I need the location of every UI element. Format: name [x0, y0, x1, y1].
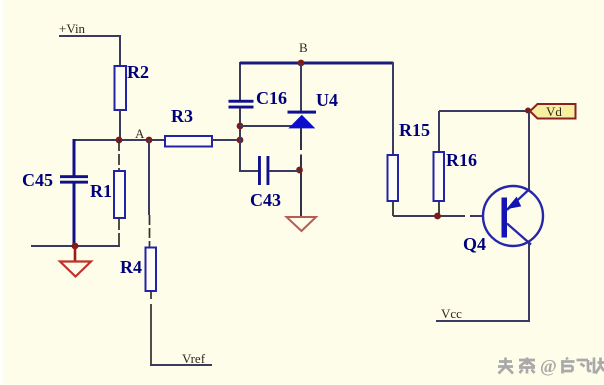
wire Vref [150, 364, 212, 366]
svg-text:R1: R1 [90, 181, 112, 201]
svg-text:Vref: Vref [182, 351, 206, 366]
junction dot C43 right [296, 167, 303, 174]
wire C43 left bend [240, 170, 259, 172]
transistor Q4 [463, 186, 543, 254]
watermark toutiao [498, 358, 604, 374]
capacitor C45 [22, 170, 88, 190]
junction dot C16/U4 [237, 123, 244, 130]
junction dot base [434, 213, 441, 220]
ground symbol middle [287, 217, 317, 231]
wire Vcc [436, 320, 530, 322]
wire R3 right [212, 139, 240, 141]
wire C16 top lead [239, 62, 241, 101]
resistor R15 [388, 155, 399, 201]
svg-text:Q4: Q4 [463, 234, 486, 254]
resistor R16 [434, 152, 445, 201]
node A junction dot left [116, 137, 123, 144]
svg-text:@: @ [540, 356, 557, 376]
wire R1 top lead [118, 140, 120, 171]
wire collector lead [528, 111, 530, 190]
wire R2 bottom lead [119, 110, 121, 140]
wire +Vin horizontal [59, 35, 121, 37]
wire R4 riser [148, 140, 150, 215]
resistor R4 [146, 248, 157, 292]
svg-text:+Vin: +Vin [59, 21, 86, 36]
wire C45 bottom lead [73, 183, 76, 246]
wire node B top [240, 62, 393, 65]
svg-text:Vd: Vd [546, 104, 562, 119]
svg-text:B: B [299, 40, 308, 55]
wire node A horizontal [74, 139, 165, 141]
resistor R1 [114, 171, 125, 218]
node A junction dot right [146, 137, 153, 144]
svg-text:Vcc: Vcc [441, 306, 462, 321]
wire R2 top lead [119, 35, 121, 66]
capacitor C43 [250, 156, 281, 210]
svg-text:R2: R2 [127, 62, 149, 82]
wire R4 bottom lead [150, 291, 152, 365]
svg-text:A: A [135, 126, 145, 141]
wire to U4 anode [240, 125, 292, 127]
resistor R2 [115, 66, 127, 110]
wire C43 right [269, 170, 299, 172]
svg-text:R16: R16 [446, 150, 477, 170]
resistor R3 [165, 136, 212, 147]
svg-text:C45: C45 [22, 170, 53, 190]
wire U4 cathode lead [300, 63, 302, 111]
wire C45 top lead [73, 139, 76, 176]
net tag Vd [530, 104, 576, 119]
node B junction dot [298, 60, 305, 67]
junction dot R3 right [237, 137, 244, 144]
svg-text:R3: R3 [171, 106, 193, 126]
wire R15 bottom lead [392, 201, 394, 216]
ground symbol left [60, 246, 91, 277]
svg-text:R4: R4 [120, 257, 142, 277]
wire R15 riser [392, 62, 394, 155]
ground junction dot [72, 243, 79, 250]
wire R16 bottom lead [438, 201, 440, 216]
wire base bus [393, 215, 484, 217]
svg-text:U4: U4 [316, 90, 338, 110]
junction dot Vd [525, 108, 531, 114]
wire R16 riser [438, 111, 440, 152]
capacitor C16 [229, 88, 288, 109]
wire emitter lead [528, 243, 530, 321]
svg-text:C16: C16 [256, 88, 287, 108]
wire C16 bottom run [239, 108, 241, 172]
wire R1 bottom lead [118, 218, 120, 246]
diode U4 [288, 90, 339, 128]
wire ground bus [31, 245, 120, 247]
wire Vd horizontal [439, 110, 528, 112]
wire U4 anode lead [300, 128, 302, 217]
svg-text:C43: C43 [250, 190, 281, 210]
svg-text:R15: R15 [399, 120, 430, 140]
